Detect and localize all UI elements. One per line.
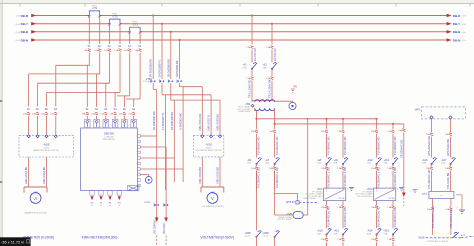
current transformer CT2 [110,23,120,25]
svg-text:-A12: -A12 [367,158,373,162]
wire branch to VSS 1 [183,86,202,88]
svg-text:VOL:24V-28V ADJ: VOL:24V-28V ADJ [307,195,323,198]
fuse column -A13 lower [392,167,395,170]
wire Q1 drop R [251,14,253,16]
wire jog 3 [171,99,175,101]
fuse UPS 2 lower [449,167,452,170]
svg-text:FT1-230VAC-1 RD: FT1-230VAC-1 RD [431,206,435,228]
fuse column -A9 upper [342,130,345,133]
pin 1 [137,135,140,138]
svg-text:01: 01 [91,205,93,207]
svg-text:-CR8: -CR8 [286,213,292,216]
svg-text:-36 x 11.72 in: -36 x 11.72 in [1,240,24,245]
wire rail 115V-B [274,111,276,124]
wire rail 115V-A [256,111,258,119]
wire UPS feed 2 [449,116,452,119]
status bar [0,237,31,246]
svg-text:25A: 25A [317,162,321,165]
wire PU1 output + [326,201,328,206]
node label DB-R right [447,14,452,18]
wire crossover level 2 [29,73,100,75]
wire branch to VSS 3 [174,99,220,101]
wire PU1 output - [342,201,344,206]
svg-text:CONTROL RELAY: CONTROL RELAY [277,218,293,221]
wire voltage drop DB-B [170,31,172,33]
arrow output 2 [99,196,102,200]
ammeter selector switch ASS box [19,135,74,157]
switch A16 [432,158,437,164]
fuse terminal 1 [86,112,89,115]
svg-text:4.0G: 4.0G [15,40,20,42]
svg-text:-CT3: -CT3 [132,22,138,26]
svg-text:AMMETER SELECTOR SW: AMMETER SELECTOR SW [34,149,59,152]
wire to ASS 3 [37,116,39,134]
svg-text:21-24: 21-24 [263,236,269,238]
terminal bottom 4 [117,191,121,196]
wire jog 4 [180,86,184,88]
svg-text:PU-24VDC(+) RD: PU-24VDC(+) RD [327,206,331,227]
svg-text:FT1-0VAC BK: FT1-0VAC BK [446,172,450,189]
fuse terminal FTB2-2 [164,204,168,206]
pin 4 [137,151,140,154]
svg-text:25A: 25A [263,67,267,70]
fuse PU1 output 1 [325,206,328,209]
svg-text:1Y-DM1300 YL: 1Y-DM1300 YL [158,59,162,77]
svg-text:DC OK: DC OK [389,198,395,200]
fuse terminal FTB1-2 [160,80,164,82]
wire voltage drop DB-R [152,14,154,16]
arrow output 1 [90,196,93,200]
svg-text:FT1-230VAC RD: FT1-230VAC RD [427,169,431,189]
pin 6 [137,162,140,165]
fuse control Y [271,46,274,49]
fuse control R 2 [251,77,254,80]
fuse PU1 output 2 [342,206,345,209]
svg-text:PU-230VAC RD: PU-230VAC RD [377,136,381,155]
wire column -A8 [325,118,327,120]
svg-text:-A17: -A17 [441,158,447,162]
svg-text:V: V [211,196,214,201]
wire contact a down [256,237,258,246]
svg-text:-A14: -A14 [367,229,373,233]
fuse PU2 out lower 2 [392,238,395,241]
terminal T4 [112,119,118,127]
svg-text:RD 230VAC: RD 230VAC [152,219,156,233]
svg-text:-CT2: -CT2 [112,14,118,18]
svg-text:VM1-VSS1 RD: VM1-VSS1 RD [198,114,202,131]
arrow continuation RD [155,218,159,223]
terminal bottom 1 [90,191,94,196]
svg-text:63A: 63A [384,232,388,235]
svg-text:PU-230VAC-1 RD: PU-230VAC-1 RD [257,167,261,188]
arrow output 4 [118,196,121,200]
svg-text:DB-Y: DB-Y [453,22,460,26]
svg-text:4.0G: 4.0G [462,32,467,34]
fuse column -A8 upper [325,130,328,133]
fuse column -A7 upper [273,130,276,133]
svg-text:VOLTMETER (0-500V): VOLTMETER (0-500V) [201,206,224,208]
wire 230VAC spare tap [403,124,405,128]
wire column -A6 [255,118,257,120]
fuse column -A7 lower [273,167,276,170]
wire crossover level 3 [38,82,110,84]
svg-text:TR1-N 230V BK: TR1-N 230V BK [268,79,272,98]
wire jog 1 [153,89,157,91]
wire column -A7 [274,123,276,125]
svg-text:4.0G: 4.0G [15,32,20,34]
svg-text:-CT1: -CT1 [92,6,98,10]
svg-text:1R-DM1300 RD: 1R-DM1300 RD [149,59,153,78]
wire CT secondary 2 [99,15,101,17]
fuse F1 [88,49,91,52]
fuse FT1 out 2 [450,208,453,211]
svg-text:1R-DM1300 RD: 1R-DM1300 RD [152,111,156,130]
terminal T5 [122,119,128,127]
svg-text:2: 2 [397,189,398,191]
power supply PU1 box [324,188,346,201]
svg-text:-CR8: -CR8 [263,231,270,235]
wire VSS to voltmeter 2 [219,157,221,187]
svg-text:FT1-0VAC-1 BK: FT1-0VAC-1 BK [449,209,453,228]
power supply PU2 box [374,188,396,201]
wire drop 4 [119,53,121,93]
svg-text:1Y-DM1300 YL: 1Y-DM1300 YL [161,112,165,130]
wire bus DB-B [36,31,449,33]
svg-text:-UPS: -UPS [414,108,420,111]
svg-text:PU-230VAC-1 RD: PU-230VAC-1 RD [327,167,331,188]
svg-text:VM1-VSS3 BU: VM1-VSS3 BU [216,114,220,131]
svg-text:-AM1: -AM1 [33,192,39,195]
wire UPS feed 1 [430,116,433,119]
wire FT1 out 1 [432,199,434,208]
svg-text:VM1-VSS4 BK: VM1-VSS4 BK [198,167,202,184]
contact CR8 b [275,231,280,237]
page margin background [0,0,2,246]
earth glyph spare [413,190,418,193]
fuse F4 [119,49,122,52]
pin 8 [137,173,140,176]
switch PU2 out 1 [377,229,382,235]
svg-text:AM1-ASS1 BK: AM1-ASS1 BK [24,166,28,184]
svg-text:63VA 50/60HZ: 63VA 50/60HZ [238,110,251,113]
pin 10 [137,184,140,187]
svg-text:KWH METER: KWH METER [103,139,116,141]
kwh meter DM1300 box [81,128,138,191]
svg-text:DB-R: DB-R [21,14,29,18]
svg-text:-A2: -A2 [263,63,268,67]
svg-text:-ASS: -ASS [43,143,50,147]
wire Q2 drop Y [271,23,273,25]
svg-text:PU-230VAC RD: PU-230VAC RD [393,136,397,155]
wire meter supply BK [165,147,167,218]
current transformer CT3 [130,31,140,33]
switch A2 [272,63,277,69]
switch -A12 [377,158,382,164]
svg-text:AMMETER (0-300/5A): AMMETER (0-300/5A) [25,212,47,215]
svg-text:A2-TR1 BK: A2-TR1 BK [274,48,277,61]
wire meter terminal feed 3 [105,83,107,107]
svg-text:-A7: -A7 [265,158,270,162]
svg-text:AM1-ASS2 BK: AM1-ASS2 BK [42,166,46,184]
wire ETB branch [275,192,298,194]
fuse ASS wire 2 [27,112,30,115]
switch -A6 [257,158,262,164]
voltmeter selector switch VSS box [193,135,223,157]
svg-text:DM1300: DM1300 [104,132,114,136]
svg-text:63A: 63A [334,232,338,235]
fuse ASS wire 4 [45,112,48,115]
svg-text:PE: PE [294,85,298,89]
fuse PU2 out lower 1 [375,238,378,241]
fuse spare tap [402,129,405,132]
wire PU2 output - [392,201,394,206]
svg-text:VOLTMETER SELECTOR SW: VOLTMETER SELECTOR SW [196,150,222,152]
fuse control Y 2 [271,77,274,80]
switch A1 [252,63,257,69]
fuse terminal 4 [114,112,117,115]
terminal ETB E7 [296,201,299,204]
fuse terminal 5 [123,112,126,115]
svg-text:63A: 63A [317,232,321,235]
svg-text:-VM1: -VM1 [210,192,216,195]
svg-text:DC OK: DC OK [339,198,345,200]
switch -A7 [275,158,280,164]
svg-text:N-DM1300 BK: N-DM1300 BK [179,113,183,130]
filter FT1 box [429,192,454,199]
fuse UPS 1 lower [430,167,433,170]
svg-text:25A: 25A [247,162,251,165]
svg-text:25A: 25A [243,67,247,70]
svg-text:-FT1: -FT1 [422,193,428,196]
fuse FT1 out 1 [431,208,434,211]
svg-text:PU-24VDC(+) RD: PU-24VDC(+) RD [377,206,381,227]
wire meter terminal feed 6 [133,99,135,107]
node label DB-N right [447,38,452,42]
wire bus DB-N [36,39,449,41]
wire crossover level 1 [56,64,90,66]
svg-text:2: 2 [347,189,348,191]
wire drop 1 [88,53,90,66]
fuse F3 [108,49,111,52]
wire bus DB-R [36,15,449,17]
fuse column -A13 upper [392,130,395,133]
svg-text:4.0G: 4.0G [15,24,20,26]
wire branch to VSS 2 [166,94,212,96]
svg-text:-A9: -A9 [334,158,339,162]
ammeter AM1 [24,187,47,193]
wire PU2 output + [376,201,378,206]
svg-text:-FTB2: -FTB2 [144,202,151,204]
svg-text:-CR8: -CR8 [244,231,251,235]
svg-text:-A11: -A11 [334,229,340,233]
fuse terminal 6 [132,112,135,115]
wire crossover level 6 [126,98,140,100]
wire CT secondary 3 [109,23,111,25]
fuse column -A12 lower [375,167,378,170]
wire pin connections [140,136,183,176]
svg-text:TR1-L 230V RD: TR1-L 230V RD [248,80,252,98]
svg-text:4.0G: 4.0G [15,16,20,18]
svg-text:DB-N: DB-N [453,38,461,42]
terminal bottom 2 [99,191,103,196]
contact CR8 a [257,231,262,237]
fuse terminal FTB1-3 [169,80,173,82]
ruler ticks [19,4,21,7]
svg-text:-A10: -A10 [317,229,323,233]
ruler top edge line [0,3,474,5]
switch PU1 out 1 [327,229,332,235]
svg-text:-A8: -A8 [317,158,322,162]
arrow spare tap [402,193,406,198]
svg-text:2: 2 [411,191,412,193]
svg-text:4.0G: 4.0G [462,40,467,42]
wire drop 5 [129,53,131,96]
wire VSS to voltmeter 1 [201,157,203,187]
breaker blade bottom right [453,232,459,237]
wire meter supply RD [156,190,158,218]
pin 2 [137,140,140,143]
fuse F6 [139,49,142,52]
transformer TR1 secondary [255,108,275,111]
svg-text:PU-230VAC-1 RD: PU-230VAC-1 RD [343,167,347,188]
wire FT1 out 2 [450,199,452,208]
svg-text:25A: 25A [422,162,426,165]
svg-text:DB-B: DB-B [21,30,29,34]
label TR1 [251,104,254,107]
fuse UPS 1 [430,133,433,136]
svg-text:63A: 63A [367,232,371,235]
wire coil right loop [303,214,308,216]
svg-text:4.0G: 4.0G [462,24,467,26]
svg-text:DB-B: DB-B [453,30,461,34]
current transformer CT1 [89,15,99,17]
wire column -A13 [392,123,394,125]
arrow output 3 [108,196,111,200]
svg-text:PU-230VAC RD: PU-230VAC RD [257,136,261,155]
switch A17 [451,158,456,164]
svg-text:1B-DM1300 BU: 1B-DM1300 BU [170,112,174,130]
svg-text:PU-24VDC(-) BU: PU-24VDC(-) BU [343,207,347,227]
fuse PU1 out lower 2 [342,238,345,241]
wire to ASS 2 [28,116,30,134]
functional earth circle [145,177,152,184]
svg-text:01: 01 [100,205,102,207]
wire voltage drop DB-N [179,39,181,41]
wire bus DB-Y [36,23,449,25]
svg-text:CONTINUED TO SHT-05: CONTINUED TO SHT-05 [427,241,448,243]
terminal T6 [131,119,137,127]
fuse terminal 2 [95,112,98,115]
svg-text:25A: 25A [265,162,269,165]
switch -A8 [327,158,332,164]
svg-text:1: 1 [376,190,377,192]
svg-text:01: 01 [109,205,111,207]
svg-text:1B-DM1300 BU: 1B-DM1300 BU [166,59,170,78]
terminal T1 [85,119,91,127]
fuse terminal FTB2-1 [155,204,159,206]
wire contact b down [274,237,276,246]
svg-text:PU-230VAC-1 RD: PU-230VAC-1 RD [393,167,397,188]
svg-text:-A6: -A6 [247,158,252,162]
switch -A9 [343,158,348,164]
svg-text:PU-230VAC-1 RD: PU-230VAC-1 RD [377,167,381,188]
wire drop 3 [109,53,111,84]
svg-text:21-24: 21-24 [244,236,250,238]
fuse column -A6 lower [255,167,258,170]
pin 9 [137,179,140,182]
arrow continuation BK [164,218,168,223]
svg-text:-A16: -A16 [422,158,428,162]
svg-text:VOLTMETER(0-500V): VOLTMETER(0-500V) [200,236,234,240]
terminal T3 [103,119,109,127]
svg-text:SP-230VAC RD: SP-230VAC RD [400,140,404,158]
wire crossover level 4 [47,91,121,93]
relay coil CR8 [293,212,303,219]
node label DB-B right [447,30,452,34]
wire jog 2 [162,94,166,96]
svg-text:25A: 25A [334,162,338,165]
svg-text:-VSS: -VSS [205,143,212,147]
wire to ASS 4 [46,116,48,134]
voltmeter VM1 [201,187,224,193]
svg-text:-PU1: -PU1 [317,188,323,191]
svg-text:-TR1: -TR1 [245,103,251,106]
switch -A13 [393,158,398,164]
wire ASS to ammeter 1 [28,157,30,187]
wire CT secondary 4 [119,23,121,25]
link box [128,186,139,191]
fuse F2 [98,49,101,52]
transformer TR1 primary [252,100,275,102]
UPS box [421,107,465,119]
wire column -A9 [342,118,344,120]
wire CT secondary 6 [139,32,141,34]
fuse control R [251,46,254,49]
svg-text:PU-230VAC RD: PU-230VAC RD [343,136,347,155]
fuse terminal FTB1-1 [151,80,155,82]
pin 3 [137,146,140,149]
svg-text:DB-R: DB-R [453,14,461,18]
wire meter terminal feed 1 [86,65,88,107]
fuse PU2 output 2 [392,206,395,209]
fuse PU2 output 1 [375,206,378,209]
svg-text:PU-230VAC-1 RD: PU-230VAC-1 RD [275,167,279,188]
earth circle PE [289,102,296,109]
svg-text:-ETB E7: -ETB E7 [286,201,296,204]
svg-text:VOL:24V-28V ADJ: VOL:24V-28V ADJ [357,195,373,198]
svg-text:-A13: -A13 [384,158,390,162]
wire meter terminal feed 2 [96,74,98,107]
svg-text:-A1: -A1 [243,63,248,67]
svg-text:DB-N: DB-N [21,38,29,42]
svg-text:2: 2 [457,208,458,210]
terminal T2 [94,119,100,127]
wire GK3A continuation [426,237,461,239]
switch PU2 out 2 [393,229,398,235]
svg-text:0.5SQMM: 0.5SQMM [143,81,152,83]
wire to ASS 1 [55,116,57,134]
svg-text:01: 01 [118,205,120,207]
svg-text:A: A [34,196,37,201]
svg-text:PU-230VAC RD: PU-230VAC RD [275,136,279,155]
svg-text:4.0G: 4.0G [462,16,467,18]
wire CT secondary 5 [129,32,131,34]
fuse column -A6 upper [255,130,258,133]
fuse terminal FTB1-4 [178,80,182,82]
fuse ASS wire 3 [36,112,39,115]
wire to PE [275,100,293,102]
svg-text:DB-Y: DB-Y [21,22,28,26]
